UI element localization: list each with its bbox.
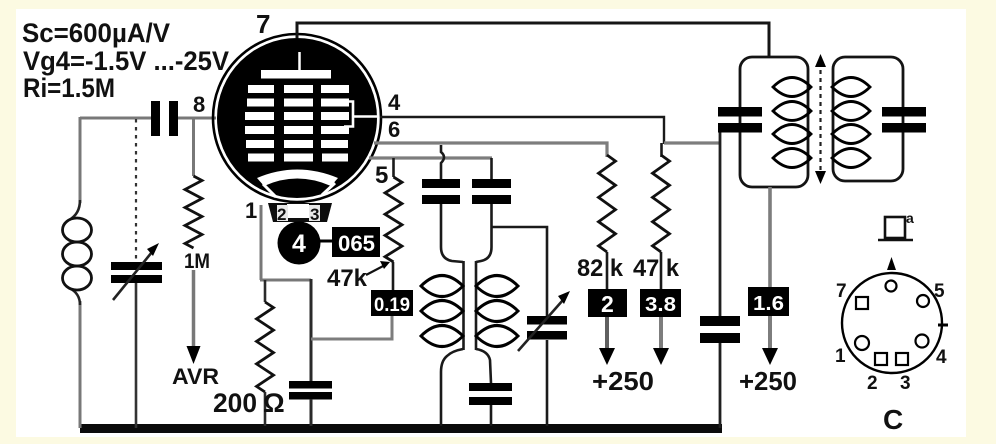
svg-text:7: 7: [836, 281, 847, 302]
tube V1 electrode block: [217, 38, 377, 198]
variable capacitor VC1 arrow: [113, 252, 152, 300]
resistor R3 lead to box: [392, 262, 395, 290]
tube V1 pin4 white bracket: [344, 102, 378, 127]
spec text block: [22, 18, 229, 103]
capacitor C4 plates: [472, 179, 511, 188]
IF2 primary loops: [773, 78, 811, 97]
capacitor C6 plates: [700, 316, 740, 326]
svg-text:Vg4=-1.5V ...-25V: Vg4=-1.5V ...-25V: [23, 46, 229, 76]
tube V1 heater white slashes: [263, 184, 276, 197]
svg-text:7: 7: [256, 9, 270, 39]
svg-text:a: a: [906, 210, 914, 226]
svg-text:0.19: 0.19: [374, 295, 410, 316]
resistor R2 200 lead: [264, 280, 267, 302]
variable capacitor VC1 plates: [111, 262, 162, 270]
resistor R3 47k lead: [392, 158, 395, 177]
socket circle: [842, 273, 942, 373]
value box 065: [332, 227, 380, 257]
arrow to +250 third: [768, 316, 772, 350]
tube V1 anode top bar: [261, 70, 331, 79]
svg-text:47k: 47k: [327, 265, 368, 292]
capacitor C3 plates: [422, 179, 460, 188]
IF1 left coil stem bottom: [441, 349, 463, 426]
coil L1 loop1: [63, 218, 92, 242]
svg-text:+250: +250: [739, 366, 797, 396]
svg-text:47 k: 47 k: [633, 255, 680, 282]
tube V1 outer envelope: [213, 34, 381, 202]
resistor R5 47k zigzag: [653, 155, 670, 252]
grid cap circle 4: [278, 222, 321, 265]
svg-text:065: 065: [338, 231, 375, 256]
svg-text:8: 8: [193, 92, 205, 117]
tube V1 cathode dome: [271, 180, 326, 193]
value box 1.6: [748, 287, 789, 316]
socket pin 1: [855, 336, 869, 350]
svg-text:1: 1: [245, 198, 257, 223]
R4 lead: [606, 252, 609, 289]
IF1 right coil side: [475, 261, 478, 350]
wire cap to tube: [178, 117, 216, 120]
tube V1 top white connector line: [298, 52, 301, 72]
socket pin 7: [856, 297, 868, 309]
variable capacitor VC2 plates: [527, 316, 567, 325]
IF2 tuning dashed line: [819, 62, 821, 176]
svg-text:AVR: AVR: [172, 364, 219, 389]
coil L1 loop2: [63, 242, 92, 266]
wire pin4 horizontal: [380, 117, 664, 144]
wire pin8 horizontal: [80, 117, 152, 120]
svg-text:4: 4: [936, 347, 947, 368]
capacitor C3 stem with hop: [441, 145, 444, 180]
wire pin6 horizontal: [374, 143, 607, 157]
svg-text:4: 4: [292, 230, 306, 258]
IF1 left coil stem top: [441, 204, 463, 262]
IF1 left coil side: [462, 261, 465, 350]
link to 065 box: [320, 240, 333, 243]
svg-text:C: C: [883, 404, 903, 435]
resistor R2 200 zigzag: [257, 302, 274, 392]
wire left vertical bottom: [79, 301, 82, 428]
ground rail: [80, 424, 722, 433]
decoupling vertical wire: [719, 131, 722, 317]
IF1 left coil loops: [421, 276, 463, 297]
svg-text:Ω: Ω: [263, 388, 285, 418]
socket key mark: [887, 257, 896, 270]
socket pin 2: [875, 353, 887, 365]
svg-text:82 k: 82 k: [577, 255, 624, 282]
svg-text:1: 1: [835, 346, 846, 367]
capacitor C2 cathode plates: [289, 381, 332, 389]
top cap symbol: [885, 217, 905, 238]
svg-text:6: 6: [388, 117, 400, 142]
svg-text:5: 5: [934, 281, 945, 302]
svg-text:3: 3: [900, 373, 911, 394]
value box 0.19: [371, 290, 413, 316]
wire pin5 horizontal: [369, 156, 492, 159]
arrow to +250: [605, 317, 609, 350]
socket pin 8: [886, 281, 897, 292]
socket pin 4: [916, 335, 929, 348]
arrow AVR shaft: [192, 270, 196, 348]
coil L1 curve bottom: [69, 288, 80, 305]
value box 3.8: [640, 289, 681, 317]
label 47k arrow: [366, 264, 387, 275]
socket side tick: [938, 324, 948, 327]
IF1 right coil stem bottom: [476, 349, 491, 383]
svg-text:2: 2: [277, 205, 286, 224]
tube base: [268, 203, 332, 222]
socket pin 5: [917, 295, 929, 307]
svg-text:3.8: 3.8: [645, 294, 676, 316]
cathode wire pin1: [260, 205, 263, 280]
socket pin 3: [896, 353, 908, 365]
wire left vertical top: [79, 117, 82, 203]
svg-text:+250: +250: [592, 366, 654, 396]
svg-text:4: 4: [388, 90, 401, 115]
tube V1 cathode white band: [257, 170, 338, 187]
variable capacitor VC2 arrow: [518, 300, 563, 351]
svg-text:1M: 1M: [184, 250, 210, 273]
resistor R5 lead top: [660, 143, 663, 157]
capacitor C1 input plates: [151, 101, 160, 136]
svg-text:Ri=1.5M: Ri=1.5M: [23, 73, 115, 103]
anode feed wire: [768, 187, 772, 288]
variable capacitor VC1 dashed stem: [135, 119, 137, 262]
resistor R1 1M lead: [192, 118, 195, 176]
pin 7 wire to top: [297, 23, 769, 58]
IF1 right coil loops: [476, 276, 518, 297]
IF2 secondary box: [833, 57, 903, 181]
capacitor C4 stem: [490, 158, 493, 180]
IF1 right coil stem top: [476, 204, 492, 262]
IF2 secondary loops: [832, 78, 870, 97]
svg-text:3: 3: [310, 205, 319, 224]
value box 2: [588, 289, 627, 317]
IF2 primary box: [740, 57, 808, 187]
tube V1 grid stripes: [245, 85, 349, 162]
wire node g2 segment: [664, 141, 720, 144]
resistor R3 47k zigzag: [385, 177, 402, 262]
resistor R4 82k zigzag: [599, 155, 616, 252]
coil L1 loop3: [63, 266, 92, 290]
capacitor C8 secondary plates: [882, 107, 926, 117]
resistor R1 1M zigzag: [185, 176, 202, 248]
variable capacitor VC1 stem bottom: [135, 283, 138, 428]
svg-text:2: 2: [601, 291, 614, 317]
R5 lead: [660, 252, 663, 289]
coil L1 curve top: [69, 200, 80, 220]
capacitor C5 bottom plates: [469, 383, 512, 391]
wire to VC2: [491, 227, 547, 317]
arrow to +250 second: [659, 317, 663, 350]
svg-text:200: 200: [213, 388, 257, 418]
svg-text:5: 5: [375, 162, 388, 189]
svg-text:2: 2: [867, 373, 878, 394]
svg-text:1.6: 1.6: [753, 293, 784, 315]
svg-text:Sc=600µA/V: Sc=600µA/V: [22, 18, 170, 48]
wire 0.19 to cathode cap: [311, 316, 392, 339]
capacitor C7 primary plates: [718, 107, 762, 117]
